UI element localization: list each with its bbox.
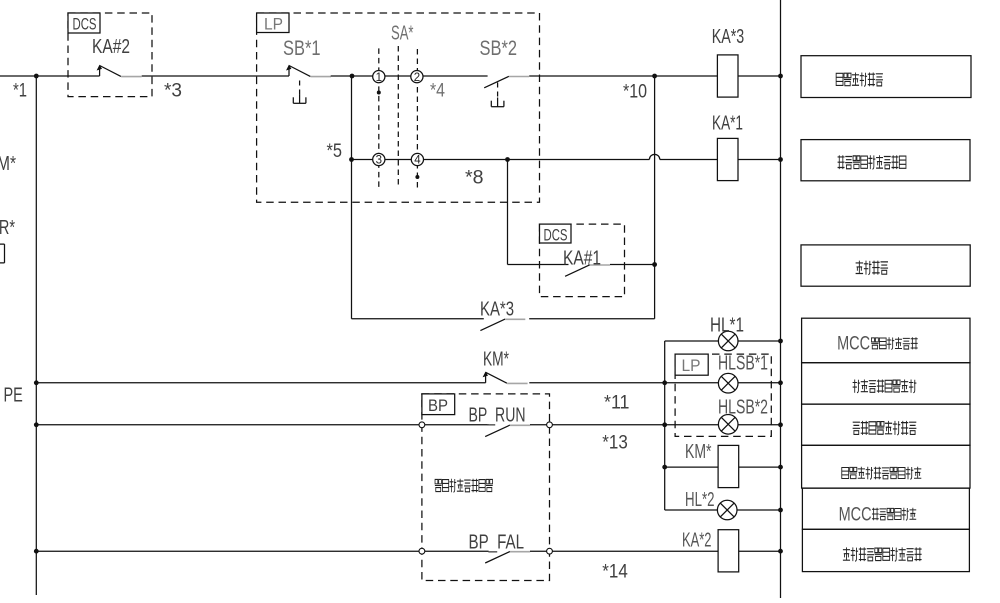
svg-text:*10: *10: [623, 82, 647, 103]
svg-text:KA#1: KA#1: [563, 248, 601, 270]
svg-text:KA#2: KA#2: [92, 36, 130, 58]
svg-text:DCS: DCS: [544, 226, 568, 245]
svg-text:BP_RUN: BP_RUN: [469, 405, 526, 427]
svg-text:SB*1: SB*1: [283, 37, 321, 60]
svg-text:*3: *3: [164, 81, 182, 102]
svg-text:*13: *13: [602, 433, 628, 454]
svg-text:*5: *5: [327, 141, 343, 162]
svg-text:*8: *8: [465, 168, 484, 189]
svg-text:*14: *14: [602, 562, 628, 583]
svg-text:KA*3: KA*3: [480, 299, 514, 321]
svg-text:MCC: MCC: [839, 504, 872, 525]
svg-text:SA*: SA*: [391, 23, 414, 45]
svg-text:PE: PE: [4, 385, 23, 407]
svg-text:3: 3: [376, 155, 382, 167]
svg-text:HLSB*1: HLSB*1: [718, 353, 768, 375]
svg-text:HLSB*2: HLSB*2: [718, 397, 768, 419]
svg-text:BP_FAL: BP_FAL: [469, 532, 525, 554]
svg-text:TR*: TR*: [0, 217, 15, 239]
svg-text:M*: M*: [0, 153, 16, 175]
svg-text:KA*1: KA*1: [712, 113, 743, 135]
svg-text:KA*2: KA*2: [682, 530, 712, 552]
svg-text:1: 1: [376, 72, 382, 84]
svg-text:HL*1: HL*1: [710, 315, 744, 337]
svg-text:*4: *4: [430, 81, 445, 102]
svg-text:MCC: MCC: [837, 334, 870, 355]
svg-text:KA*3: KA*3: [712, 26, 745, 48]
svg-text:DCS: DCS: [73, 15, 97, 34]
svg-text:SB*2: SB*2: [480, 37, 518, 60]
svg-text:KM*: KM*: [685, 441, 712, 463]
svg-text:2: 2: [414, 72, 420, 84]
svg-text:BP: BP: [428, 396, 448, 415]
svg-text:KM*: KM*: [483, 349, 509, 371]
svg-text:*1: *1: [13, 81, 27, 102]
svg-text:HL*2: HL*2: [685, 489, 715, 511]
svg-text:*11: *11: [604, 393, 630, 414]
svg-text:LP: LP: [682, 356, 701, 375]
svg-text:LP: LP: [264, 15, 283, 34]
svg-text:4: 4: [414, 155, 421, 167]
